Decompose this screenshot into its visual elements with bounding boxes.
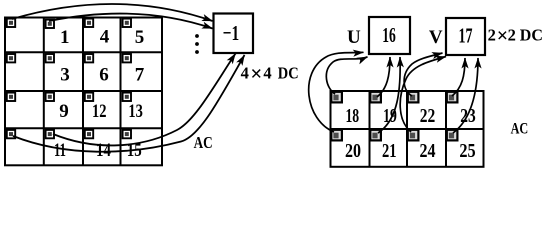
arc block24 to box17 — [400, 57, 446, 133]
svg-text:DC: DC — [520, 26, 543, 44]
svg-text:5: 5 — [135, 27, 145, 48]
svg-text:−1: −1 — [223, 21, 240, 45]
svg-text:×: × — [250, 61, 262, 85]
svg-text:AC: AC — [194, 135, 213, 153]
svg-text:17: 17 — [459, 24, 473, 48]
arrow block25 to box17 — [453, 58, 478, 133]
arrow block23 to box17 — [452, 58, 465, 96]
svg-text:2: 2 — [508, 26, 516, 45]
svg-text:7: 7 — [135, 64, 145, 85]
svg-text:4: 4 — [241, 64, 249, 83]
svg-text:AC: AC — [511, 120, 529, 138]
svg-text:22: 22 — [420, 105, 436, 127]
marker speckles right grid — [333, 95, 454, 139]
right grid block numbers — [345, 105, 476, 162]
svg-text:9: 9 — [59, 101, 69, 122]
top DC arc from block 1 to -1 — [49, 14, 213, 29]
svg-text:2: 2 — [488, 26, 496, 45]
svg-text:6: 6 — [99, 64, 109, 85]
bottom AC arc from block 10 marker to -1 — [13, 55, 245, 152]
left luma 4x4 grid — [5, 18, 162, 166]
marker inner speckles left grid — [9, 21, 129, 136]
svg-text:×: × — [497, 25, 508, 47]
box -1 (luma DC block) — [214, 14, 254, 54]
svg-text:1: 1 — [60, 27, 70, 48]
svg-text:11: 11 — [54, 140, 66, 161]
left grid block numbers — [54, 27, 145, 161]
label 2x2 DC — [488, 25, 543, 47]
arc block20 to box16 — [309, 52, 364, 132]
label 4x4 DC — [241, 61, 299, 85]
svg-text:14: 14 — [96, 140, 111, 161]
bottom AC arc from block 11 marker to -1 — [53, 54, 236, 146]
right grid DC markers (8 dark squares) — [331, 92, 457, 141]
left grid DC markers (16 small squares) — [7, 19, 131, 139]
svg-text:25: 25 — [459, 140, 475, 162]
right chroma AC 2x4 grid — [331, 91, 484, 167]
svg-text:13: 13 — [128, 101, 143, 122]
arc block18 to box16 — [326, 57, 367, 94]
arrow block19 to box16 — [377, 57, 390, 97]
svg-text:4: 4 — [100, 27, 110, 48]
svg-text:DC: DC — [278, 65, 299, 83]
box 17 (V chroma DC) — [446, 18, 485, 55]
svg-text:U: U — [347, 27, 361, 48]
svg-text:18: 18 — [345, 105, 359, 127]
arrow block21 to box16 — [378, 57, 400, 133]
box 16 (U chroma DC) — [369, 17, 410, 54]
svg-text:V: V — [429, 27, 443, 48]
svg-text:24: 24 — [420, 140, 436, 162]
top DC arc from block 0 to -1 — [12, 4, 213, 21]
svg-text:16: 16 — [382, 23, 396, 47]
svg-text:3: 3 — [60, 64, 70, 85]
svg-text:12: 12 — [92, 101, 107, 122]
svg-text:4: 4 — [263, 64, 271, 83]
svg-text:21: 21 — [382, 140, 397, 162]
svg-text:20: 20 — [345, 140, 361, 162]
arc block22 to box17 — [404, 53, 442, 96]
vertical ellipsis — [195, 34, 199, 54]
